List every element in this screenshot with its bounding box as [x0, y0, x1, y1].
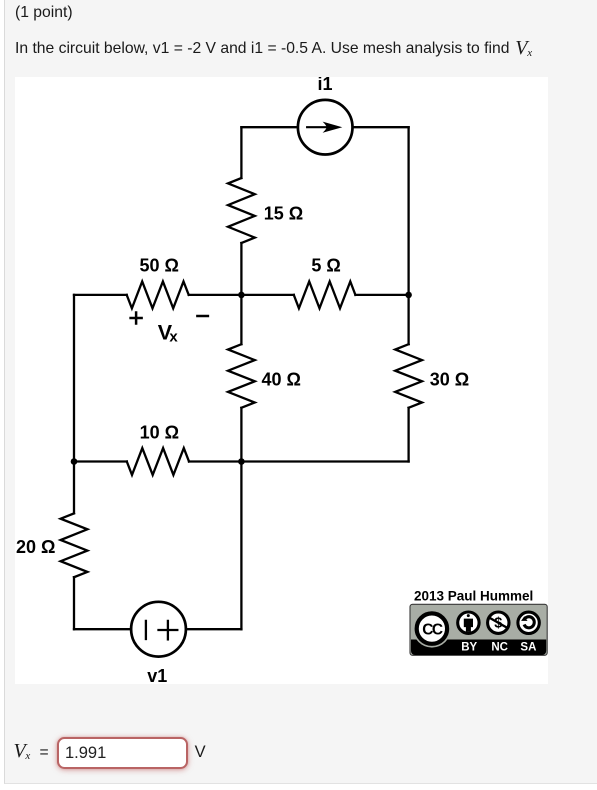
svg-text:2013 Paul Hummel: 2013 Paul Hummel — [414, 588, 533, 603]
svg-text:15 Ω: 15 Ω — [264, 204, 303, 224]
svg-text:NC: NC — [491, 641, 508, 653]
svg-text:10 Ω: 10 Ω — [140, 422, 179, 442]
svg-text:i1: i1 — [317, 77, 332, 94]
svg-text:5 Ω: 5 Ω — [311, 256, 340, 276]
svg-text:40 Ω: 40 Ω — [262, 370, 301, 390]
svg-text:BY: BY — [461, 641, 477, 653]
svg-text:50 Ω: 50 Ω — [140, 256, 179, 276]
svg-text:v1: v1 — [147, 666, 167, 684]
svg-text:30 Ω: 30 Ω — [430, 370, 469, 390]
svg-text:20 Ω: 20 Ω — [16, 537, 55, 557]
svg-text:CC: CC — [422, 621, 443, 638]
svg-text:x: x — [169, 329, 178, 346]
svg-text:SA: SA — [520, 641, 536, 653]
